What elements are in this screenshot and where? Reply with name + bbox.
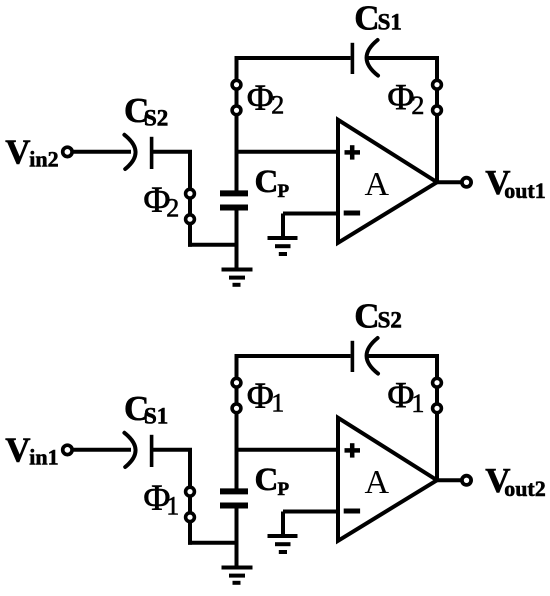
svg-text:2: 2 [166, 193, 179, 222]
svg-text:S2: S2 [378, 307, 402, 332]
svg-text:Φ: Φ [247, 376, 274, 417]
svg-text:S1: S1 [144, 404, 168, 429]
svg-text:A: A [365, 464, 390, 501]
svg-text:C: C [255, 164, 279, 200]
svg-text:out2: out2 [504, 476, 546, 501]
svg-text:P: P [278, 181, 290, 202]
svg-text:C: C [354, 296, 379, 335]
svg-text:in1: in1 [29, 445, 58, 470]
svg-text:P: P [278, 479, 290, 500]
svg-text:S2: S2 [144, 106, 168, 131]
svg-text:C: C [354, 0, 379, 37]
svg-text:V: V [5, 431, 30, 470]
svg-text:out1: out1 [504, 178, 546, 203]
svg-text:Φ: Φ [387, 375, 414, 416]
svg-text:1: 1 [166, 491, 179, 520]
svg-text:S1: S1 [378, 9, 402, 34]
svg-text:Φ: Φ [387, 77, 414, 118]
svg-text:1: 1 [271, 389, 284, 418]
svg-text:1: 1 [411, 389, 424, 418]
svg-text:C: C [255, 462, 279, 498]
svg-text:A: A [365, 166, 390, 203]
svg-text:in2: in2 [29, 147, 58, 172]
svg-text:V: V [5, 133, 30, 172]
svg-text:2: 2 [411, 91, 424, 120]
svg-text:Φ: Φ [247, 78, 274, 119]
svg-text:2: 2 [271, 91, 284, 120]
